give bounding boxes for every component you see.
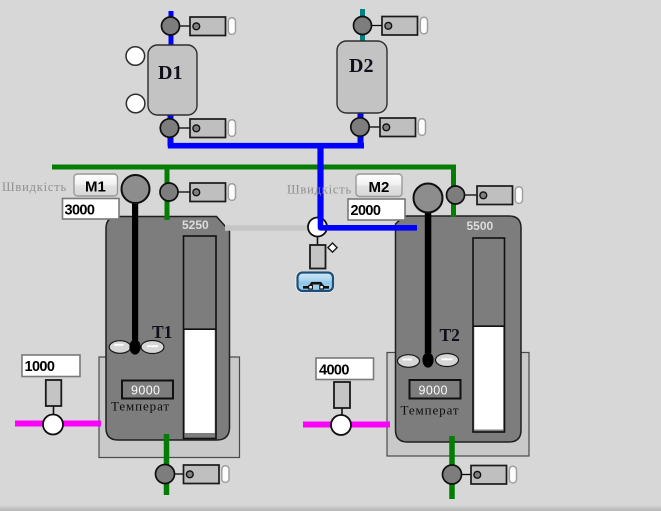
svg-text:2000: 2000	[351, 203, 381, 219]
svg-text:T2: T2	[440, 325, 460, 345]
inactive gray pipe from T1 to 3-way valve	[225, 225, 310, 231]
stirrer shaft M1	[132, 190, 138, 340]
tank T1 body	[106, 217, 230, 441]
button M1	[74, 174, 118, 196]
svg-text:9000: 9000	[419, 384, 448, 398]
button M2	[356, 174, 402, 197]
indicator lamp D1 lower	[126, 94, 145, 113]
pedestal under tank T2	[387, 353, 529, 457]
svg-text:Температ: Температ	[401, 403, 460, 418]
level bar T1	[184, 236, 217, 439]
dosing actuator right	[334, 382, 350, 408]
setpoint box 2000	[348, 199, 405, 220]
blue pipe D1 outlet	[168, 112, 174, 146]
3-way valve	[308, 218, 327, 237]
dosing actuator left	[46, 380, 62, 406]
svg-text:1000: 1000	[25, 359, 55, 375]
magenta pipe left	[15, 421, 101, 427]
dosing valve left	[43, 415, 63, 435]
pedestal under tank T1	[99, 357, 240, 458]
green drain pipe T1	[164, 434, 170, 495]
blue pipe elbow to T2	[321, 212, 418, 228]
impeller T1 left blade	[109, 341, 131, 354]
valve T2 drain	[443, 465, 517, 484]
blue inlet stub above D1 valve	[169, 11, 174, 46]
dosing tank D2	[337, 41, 387, 113]
tank T2 body	[396, 216, 522, 442]
magenta pipe right	[303, 422, 390, 428]
svg-text:Швидкість: Швидкість	[2, 180, 67, 194]
svg-text:5500: 5500	[467, 219, 494, 233]
svg-text:M1: M1	[85, 179, 106, 196]
setpoint box 3000	[63, 199, 120, 220]
green drain pipe T2	[449, 436, 455, 499]
impeller T1 right blade	[141, 341, 164, 354]
bottom window edge shadow	[0, 0, 1, 1]
green supply pipe main	[52, 167, 454, 217]
blue down pipe to 3-way valve	[317, 144, 323, 223]
mode switch button	[296, 271, 335, 293]
stirrer shaft M2	[425, 200, 432, 353]
valve T1 drain	[156, 465, 230, 484]
indicator lamp D1 upper	[126, 47, 145, 66]
valve D2 outlet	[351, 118, 426, 137]
svg-text:D2: D2	[349, 55, 373, 77]
motor M2	[414, 184, 443, 213]
valve D1 inlet	[162, 17, 236, 36]
svg-text:5250: 5250	[182, 218, 209, 232]
valve T1 feed	[160, 183, 236, 202]
temperature display T2	[410, 380, 461, 399]
svg-text:M2: M2	[369, 179, 390, 196]
3-way valve actuator body	[310, 245, 326, 269]
impeller T2 left blade	[398, 355, 420, 368]
level bar T2	[473, 238, 505, 432]
impeller T2 hub	[422, 352, 433, 367]
setpoint box 4000	[316, 358, 374, 380]
3-way valve actuator stem	[317, 236, 319, 246]
blue pipe D2 outlet	[358, 111, 364, 146]
motor M1	[122, 175, 150, 203]
teal inlet stub above D2 valve	[360, 9, 365, 43]
svg-text:D1: D1	[158, 62, 182, 84]
svg-text:3000: 3000	[65, 202, 95, 218]
svg-text:Температ: Температ	[111, 399, 170, 414]
green pipe into tank T1	[165, 167, 170, 220]
svg-text:9000: 9000	[131, 384, 160, 398]
svg-text:T1: T1	[152, 322, 172, 342]
impeller T1 hub	[129, 339, 140, 354]
impeller T2 right blade	[436, 354, 459, 367]
temperature display T1	[122, 381, 173, 399]
valve D1 outlet	[160, 119, 235, 138]
blue header pipe	[168, 143, 364, 149]
valve D2 inlet	[354, 17, 428, 36]
dosing valve right	[331, 415, 351, 435]
svg-text:4000: 4000	[319, 362, 349, 378]
setpoint box 1000	[22, 355, 80, 377]
dosing tank D1	[148, 45, 197, 115]
valve T2 feed	[447, 186, 523, 205]
3-way valve indicator diamond	[328, 243, 337, 252]
svg-text:Швидкість: Швидкість	[287, 183, 352, 197]
